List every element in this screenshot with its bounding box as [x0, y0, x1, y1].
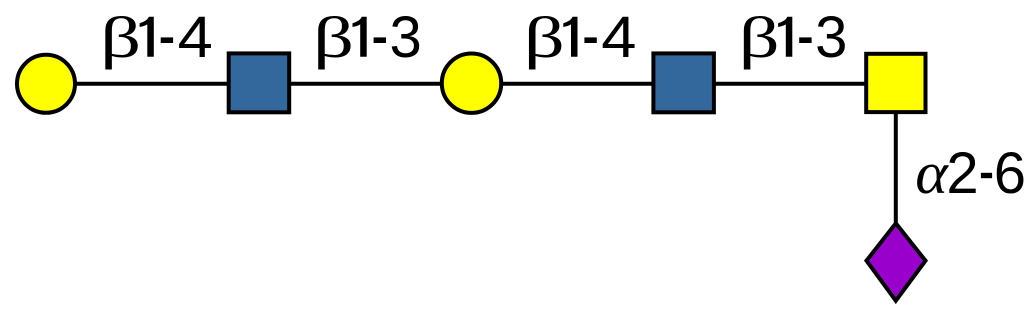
linkage label 4: β1-3	[739, 5, 848, 70]
svg-text:α: α	[915, 141, 950, 207]
wire backbone horizontal	[46, 82, 896, 86]
wire vertical to Neu5Ac	[894, 114, 898, 240]
linkage label 3: β1-4	[524, 4, 637, 70]
linkage label 1: β1-4	[100, 4, 213, 70]
monosaccharide GlcNAc 2 (blue square)	[653, 53, 714, 112]
svg-text:β: β	[313, 6, 354, 70]
monosaccharide Gal 1 (yellow circle)	[17, 55, 75, 113]
svg-text:β: β	[100, 6, 141, 70]
svg-text:β: β	[524, 6, 565, 70]
svg-text:2: 2	[946, 141, 978, 206]
svg-text:β: β	[739, 6, 780, 70]
linkage label 2: β1-3	[313, 5, 422, 70]
linkage label 5: α2-6	[915, 141, 1026, 207]
svg-text:4: 4	[601, 4, 636, 69]
svg-text:6: 6	[994, 141, 1026, 206]
svg-text:3: 3	[390, 5, 422, 70]
monosaccharide GlcNAc 1 (blue square)	[229, 53, 290, 112]
monosaccharide Gal 2 (yellow circle)	[442, 53, 501, 112]
svg-text:4: 4	[178, 4, 213, 69]
svg-text:3: 3	[815, 5, 847, 70]
monosaccharide GalNAc (yellow square)	[866, 54, 925, 112]
monosaccharide Neu5Ac (purple diamond)	[867, 223, 926, 300]
